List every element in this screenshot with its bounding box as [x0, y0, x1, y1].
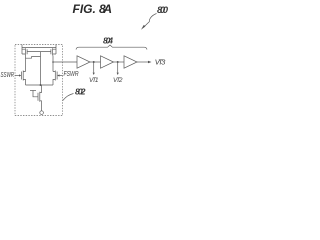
svg-text:VT2: VT2	[113, 77, 123, 84]
svg-text:8A: 8A	[99, 2, 112, 16]
transistor M3	[38, 92, 42, 111]
wire U2-U3	[114, 61, 125, 63]
wire SSWR input	[15, 75, 20, 77]
arrowhead into N2 gate	[57, 74, 59, 76]
title FIG. 8A	[73, 2, 113, 16]
terminal circle	[40, 111, 44, 115]
leader arrow to 800	[141, 14, 157, 30]
svg-text:802: 802	[75, 87, 86, 97]
wire N2 drain	[52, 55, 54, 72]
stepped drain wire left	[25, 57, 40, 59]
wire U1-U2	[90, 61, 101, 63]
brace 804	[76, 45, 147, 50]
transistor N2	[53, 71, 57, 86]
buffer U1	[77, 56, 90, 68]
transistor P1	[22, 48, 27, 56]
arrowhead VT3	[148, 61, 152, 64]
node out dot	[52, 61, 54, 63]
svg-text:FSWR: FSWR	[64, 71, 79, 78]
svg-text:SSWR: SSWR	[1, 72, 15, 79]
label 800	[157, 5, 169, 16]
wire VT1 tap	[93, 62, 95, 73]
arrowhead into N1 gate	[19, 74, 21, 76]
wire rail stub right	[55, 45, 57, 48]
gate wire P1-P2	[27, 51, 51, 53]
transistor P2	[51, 48, 56, 56]
wire P1 drain	[24, 55, 26, 58]
wire M3 gate lead	[33, 91, 38, 97]
buffer U2	[101, 56, 114, 68]
svg-text:VT3: VT3	[155, 58, 166, 67]
node VT1 dot	[93, 61, 95, 63]
svg-text:804: 804	[103, 36, 113, 46]
svg-text:800: 800	[157, 5, 168, 16]
wire VT2 tap	[117, 62, 119, 73]
buffer U3	[124, 56, 137, 68]
bias stub T	[30, 90, 36, 92]
leader line to 802	[63, 94, 74, 101]
node VT2 dot	[117, 61, 119, 63]
transistor N1	[21, 71, 25, 86]
top rail	[22, 47, 56, 49]
wire tail drain	[40, 85, 42, 93]
center drop wire	[40, 52, 42, 57]
wire output VT3	[137, 61, 149, 63]
arrowhead VT2	[117, 73, 119, 75]
wire FSWR gate lead	[59, 75, 63, 77]
wire output tap	[53, 61, 77, 63]
svg-text:FIG.: FIG.	[73, 2, 96, 16]
wire rail stub left	[21, 45, 23, 48]
center vertical wire	[40, 57, 42, 85]
node A dot	[40, 84, 42, 86]
dashed box 802	[15, 45, 63, 116]
arrowhead VT1	[93, 73, 95, 75]
wire mid rail	[26, 84, 54, 86]
wire N1 drain	[25, 58, 27, 71]
svg-text:VT1: VT1	[89, 77, 99, 84]
